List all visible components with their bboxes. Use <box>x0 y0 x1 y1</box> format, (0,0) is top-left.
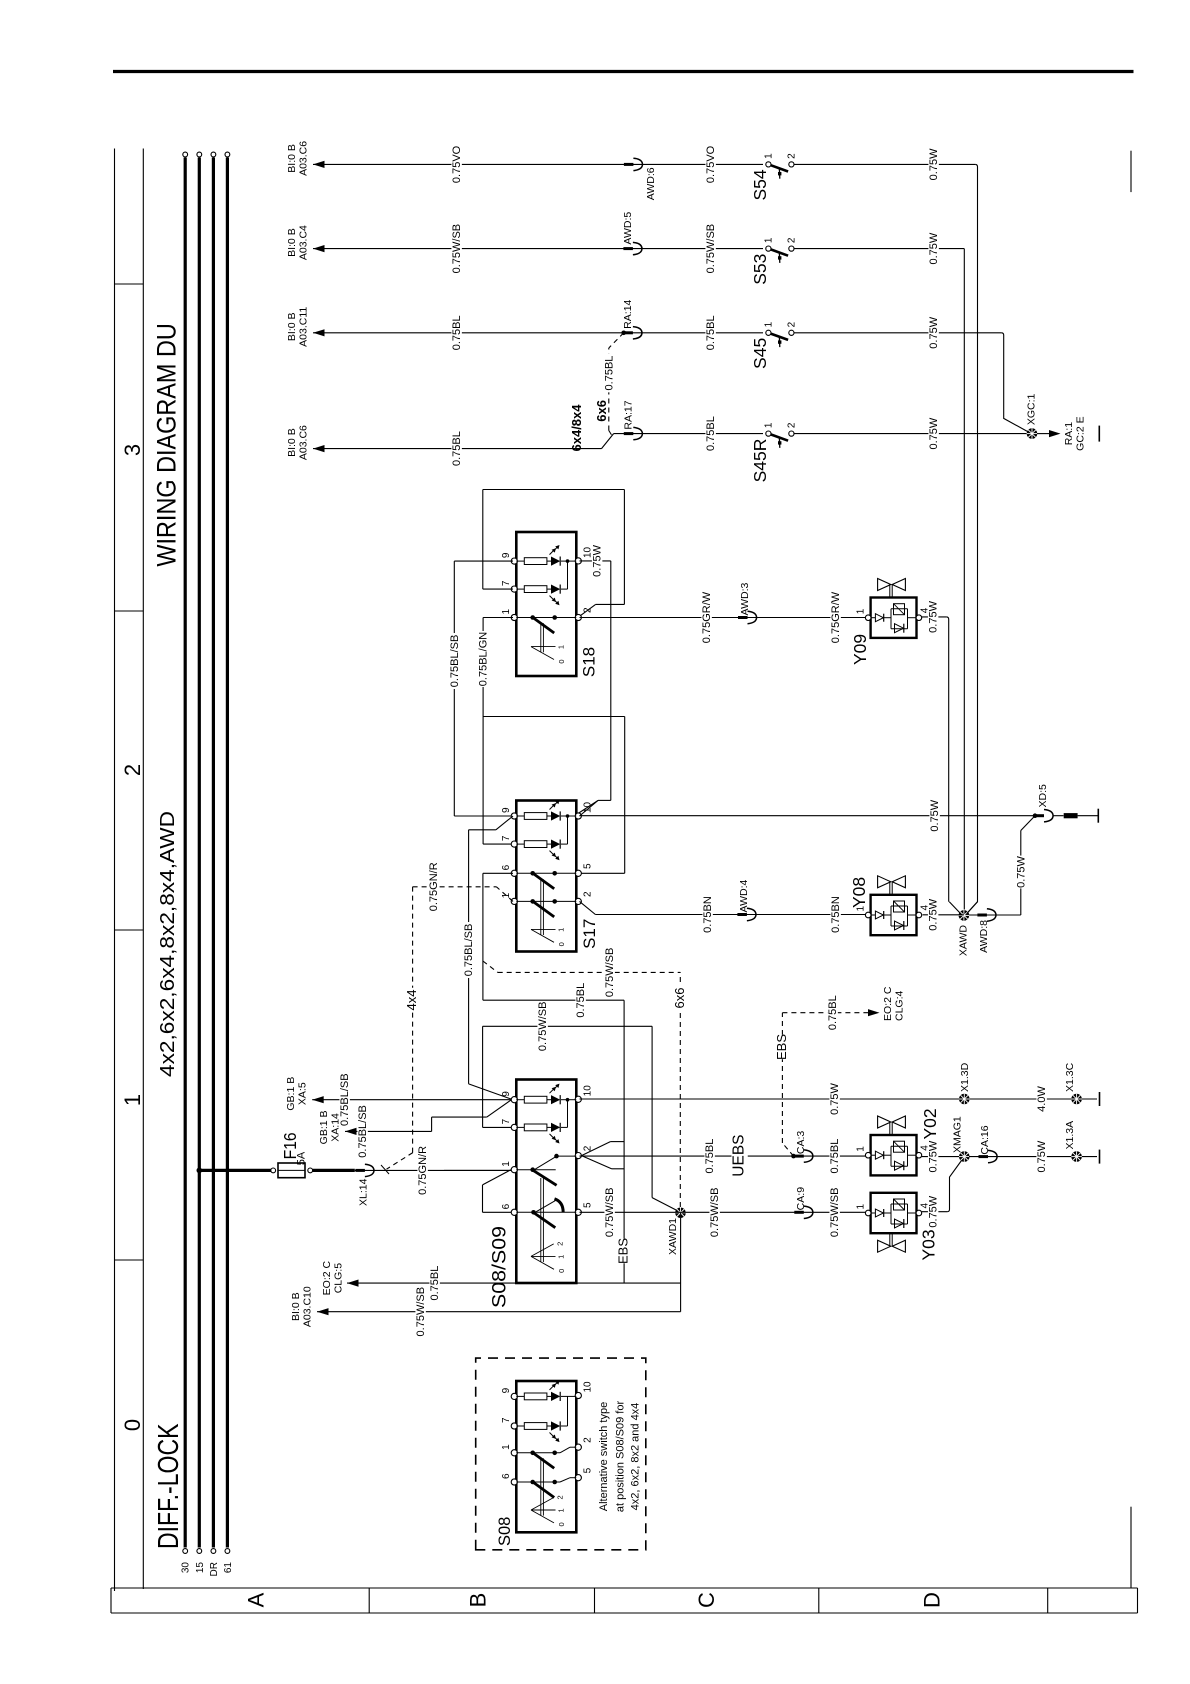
svg-text:30: 30 <box>181 1562 192 1574</box>
svg-text:1: 1 <box>557 928 566 932</box>
svg-text:1: 1 <box>557 1508 566 1512</box>
S17 pin 2 <box>575 898 581 904</box>
svg-text:1: 1 <box>764 153 775 159</box>
svg-text:3: 3 <box>120 444 145 456</box>
alt S08 switch box <box>516 1381 576 1532</box>
svg-text:2: 2 <box>583 1437 594 1443</box>
X1.3C termination <box>1099 1092 1101 1106</box>
svg-text:10: 10 <box>583 1085 594 1097</box>
svg-text:CA:3: CA:3 <box>795 1131 807 1155</box>
svg-text:6: 6 <box>501 1473 512 1479</box>
alt S08 lamp (pin 9) <box>516 1395 524 1397</box>
pin9 wire up to GB:1 B / XA:5 arrow <box>312 1099 511 1101</box>
svg-text:0.75W: 0.75W <box>829 1082 841 1114</box>
S08/S09 lamp (pin 7) <box>516 1126 524 1128</box>
solenoid valve Y02 box <box>871 1135 917 1175</box>
splice X1.3C <box>1071 1094 1082 1105</box>
4x4 dashed run to F16 output <box>412 887 414 1153</box>
S17 pin1 dashed 4x4 feed <box>496 887 513 902</box>
svg-text:0.75W: 0.75W <box>928 1195 940 1227</box>
svg-text:A03.C6: A03.C6 <box>298 141 310 176</box>
alt S08 switch contact 1-2 <box>516 1452 560 1454</box>
svg-text:0.75BL/SB: 0.75BL/SB <box>357 1105 369 1158</box>
svg-text:BI:0 B: BI:0 B <box>290 1292 302 1321</box>
Y02 pin 4 <box>916 1152 922 1158</box>
svg-text:0.75BL: 0.75BL <box>575 983 587 1018</box>
Y09 internals <box>871 617 875 619</box>
jumper pin1 to pin6 <box>483 1170 512 1185</box>
svg-text:0.75BL: 0.75BL <box>603 356 615 391</box>
svg-text:0.75W/SB: 0.75W/SB <box>604 948 616 998</box>
F16 wire into pin 1 <box>444 1169 511 1171</box>
S18 pin10 wire (0.75W) to S17 pin10 <box>580 560 611 562</box>
svg-text:0: 0 <box>557 942 566 946</box>
S17 pin 9 <box>511 813 517 819</box>
svg-text:0: 0 <box>557 1522 566 1526</box>
S08/S09 pin 5 <box>575 1209 581 1215</box>
dashed box: alternative switch S08 <box>476 1358 646 1550</box>
svg-text:XD:5: XD:5 <box>1037 784 1049 808</box>
svg-text:0.75GR/W: 0.75GR/W <box>830 591 842 643</box>
svg-text:DR: DR <box>209 1562 220 1576</box>
Y08 pin 1 <box>865 912 871 918</box>
svg-text:A03.C10: A03.C10 <box>302 1286 314 1327</box>
svg-text:XL:14: XL:14 <box>358 1178 370 1206</box>
svg-text:7: 7 <box>501 1118 512 1124</box>
Y09 pin 4 <box>916 615 922 621</box>
svg-text:XA:5: XA:5 <box>297 1082 309 1105</box>
svg-text:1: 1 <box>557 1255 566 1259</box>
alt S08 pin 1 <box>511 1450 517 1456</box>
S17 pin9 riser from S18 net <box>454 815 511 817</box>
svg-text:RA:1: RA:1 <box>1063 422 1075 446</box>
svg-text:15: 15 <box>195 1562 206 1574</box>
Y03 pilot bowtie <box>889 1233 891 1246</box>
svg-text:1: 1 <box>856 608 867 614</box>
connector XGC:1 <box>1027 428 1038 439</box>
S18 pin2 wire (0.75GR/W) down to Y09 <box>580 617 867 619</box>
alt S08 pin 7 <box>511 1423 517 1429</box>
svg-text:AWD:6: AWD:6 <box>645 167 657 200</box>
alt S08 pin 2 <box>575 1444 581 1450</box>
svg-text:XMAG1: XMAG1 <box>952 1116 964 1153</box>
S08/S09 pin 9 <box>511 1097 517 1103</box>
EBS net: S17 pin6 zigzag into XAWD1 <box>623 1000 625 1283</box>
wire B lower segment to XAWD <box>794 248 964 250</box>
S08/S09 pin 2 <box>575 1153 581 1159</box>
pin7 riser to EBS/XAWD1 net <box>483 1126 511 1128</box>
S17 pin 5 <box>575 870 581 876</box>
svg-text:0.75BL: 0.75BL <box>705 315 717 350</box>
alt S08 pin 10 <box>575 1392 581 1398</box>
connector CA:16 <box>979 1155 989 1158</box>
svg-text:XAWD: XAWD <box>958 925 970 957</box>
svg-text:1: 1 <box>764 422 775 428</box>
power rail 61 <box>226 158 229 1548</box>
S18 pin9 wire to S17 pin9 (0.75BL/SB) <box>454 560 513 562</box>
S17 pin 10 <box>575 813 581 819</box>
svg-text:0.75W: 0.75W <box>928 417 940 449</box>
S18 pin 10 <box>575 558 581 564</box>
S08/S09 pin 10 <box>575 1096 581 1102</box>
alt S08 lamp (pin 7) <box>516 1425 524 1427</box>
wire A horizontal run to XAWD <box>966 164 977 914</box>
S17 lamp (pin 9) <box>516 815 524 817</box>
Y09 pin 1 <box>865 615 871 621</box>
svg-text:RA:14: RA:14 <box>622 299 634 328</box>
svg-text:0.75BL: 0.75BL <box>705 416 717 451</box>
svg-text:XA:14: XA:14 <box>330 1113 342 1142</box>
svg-text:9: 9 <box>501 552 512 558</box>
svg-text:0.75BL: 0.75BL <box>429 1266 441 1301</box>
svg-text:0.75W/SB: 0.75W/SB <box>451 224 463 274</box>
svg-text:0.75GN/R: 0.75GN/R <box>417 1146 429 1195</box>
S08/S09 mechanism <box>540 1178 542 1262</box>
S18 lamp (pin 7) <box>516 588 524 590</box>
alt S08 mechanism <box>540 1458 542 1515</box>
thick fuse output <box>313 1169 355 1172</box>
6x6 dashed into XAWD1 <box>483 961 498 972</box>
svg-text:B: B <box>465 1593 490 1608</box>
connector AWD:6 on wire A <box>624 163 634 166</box>
wire C run to XGC:1 <box>1001 333 1027 432</box>
svg-text:0.75BN: 0.75BN <box>830 896 842 933</box>
frame bottom-edge stubs <box>1130 151 1132 192</box>
S18 pin7-pin2 lamp feed loop <box>483 588 513 590</box>
svg-text:0.75W: 0.75W <box>929 799 941 831</box>
svg-text:BI:0 B: BI:0 B <box>286 428 298 457</box>
S17 pin 1 <box>511 898 517 904</box>
svg-text:GB:1 B: GB:1 B <box>318 1110 330 1144</box>
svg-text:4x4: 4x4 <box>404 990 419 1011</box>
svg-text:2: 2 <box>787 422 798 428</box>
svg-text:0.75BL/SB: 0.75BL/SB <box>463 924 475 977</box>
svg-text:A: A <box>244 1592 269 1607</box>
switch S45R blade <box>771 434 788 440</box>
svg-text:0.75W/SB: 0.75W/SB <box>705 224 717 274</box>
svg-text:0.75W: 0.75W <box>928 232 940 264</box>
wire to S08/S09 pin1 (0.75GN/R) <box>355 1169 511 1171</box>
alt S08 pin 9 <box>511 1393 517 1399</box>
power rail 15 <box>198 158 201 1548</box>
splice X1.3D <box>959 1094 970 1105</box>
svg-text:2: 2 <box>787 237 798 243</box>
svg-text:0.75W: 0.75W <box>928 148 940 180</box>
svg-text:4.0W: 4.0W <box>1036 1086 1048 1112</box>
S18 pin 7 <box>511 586 517 592</box>
XD:5 sleeve bar <box>1064 813 1078 818</box>
svg-text:UEBS: UEBS <box>731 1134 748 1176</box>
arrow to RA:1 / GC:2 E <box>1037 433 1049 435</box>
splice XAWD <box>959 910 970 921</box>
svg-text:1: 1 <box>120 1094 145 1106</box>
svg-text:XGC:1: XGC:1 <box>1026 393 1038 425</box>
Y09 pin4 wire to XAWD (0.75W) <box>922 616 947 618</box>
svg-text:0.75W/SB: 0.75W/SB <box>537 1002 549 1052</box>
svg-text:7: 7 <box>501 1417 512 1423</box>
pin5 wire (0.75W/SB) through XAWD1 to Y03 <box>580 1211 867 1213</box>
switch S53 pins <box>766 246 771 251</box>
connector AWD:8 <box>977 914 987 917</box>
svg-text:DIFF.-LOCK: DIFF.-LOCK <box>153 1423 185 1549</box>
svg-text:0.75W: 0.75W <box>1015 855 1027 887</box>
wire B (0.75W/SB) <box>313 248 763 250</box>
wire A lower segment to corner <box>794 163 975 165</box>
XD:5 termination bar <box>1097 809 1099 823</box>
junction on rail 15 <box>197 1168 203 1174</box>
Y03 pin 1 <box>865 1210 871 1216</box>
svg-text:S08/S09: S08/S09 <box>490 1226 511 1308</box>
Y09 pilot bowtie <box>889 585 891 598</box>
connector RA:14 on wire C <box>623 331 633 334</box>
variant split tick on F16 wire <box>381 1165 389 1174</box>
svg-text:CLG:5: CLG:5 <box>333 1263 345 1294</box>
svg-text:0.75VO: 0.75VO <box>705 145 717 183</box>
svg-text:CLG:4: CLG:4 <box>894 990 906 1021</box>
S18 switch contact 1-2 <box>516 617 563 619</box>
wire D jog <box>602 434 614 449</box>
svg-text:1: 1 <box>501 1444 512 1450</box>
svg-text:6x6: 6x6 <box>594 400 609 422</box>
alt S08 pin 5 <box>575 1475 581 1481</box>
svg-text:RA:17: RA:17 <box>623 400 635 429</box>
svg-text:5: 5 <box>583 1467 594 1473</box>
connector AWD:5 on wire B <box>623 247 633 250</box>
svg-text:S45R: S45R <box>750 439 770 483</box>
EBS dashed branch point <box>791 1154 796 1159</box>
svg-text:EBS: EBS <box>616 1238 631 1264</box>
lower horizontal into XAWD1 <box>680 1213 682 1312</box>
svg-text:5: 5 <box>583 1202 594 1208</box>
svg-text:7: 7 <box>501 835 512 841</box>
svg-text:A03.C6: A03.C6 <box>298 425 310 460</box>
svg-text:0.75VO: 0.75VO <box>451 145 463 183</box>
switch S45 blade <box>771 334 788 340</box>
wire C (0.75BL) <box>313 332 763 334</box>
svg-text:Y09: Y09 <box>850 634 870 665</box>
Y08 internals <box>871 914 875 916</box>
svg-text:0.75BL: 0.75BL <box>451 315 463 350</box>
Y03 internals <box>871 1212 875 1214</box>
S08/S09 lamp (pin 9) <box>516 1099 524 1101</box>
svg-text:AWD:3: AWD:3 <box>739 582 751 615</box>
svg-text:2: 2 <box>787 153 798 159</box>
svg-text:5A: 5A <box>296 1151 308 1165</box>
svg-text:1: 1 <box>764 237 775 243</box>
splice X1.3A <box>1071 1151 1082 1162</box>
S18 mechanism <box>540 623 542 652</box>
svg-text:0.75BL/SB: 0.75BL/SB <box>449 635 461 688</box>
Y03 pin4 to XMAG1 (0.75W) <box>922 1211 948 1213</box>
svg-text:2: 2 <box>787 321 798 327</box>
svg-text:A03.C11: A03.C11 <box>298 307 310 347</box>
svg-text:0.75W: 0.75W <box>928 316 940 348</box>
alt S08 switch contact 6-5 <box>516 1481 560 1483</box>
alt S08 pin 6 <box>511 1479 517 1485</box>
svg-text:9: 9 <box>501 807 512 813</box>
svg-text:S45: S45 <box>750 338 770 369</box>
branch XD:5 to AWD:8 / XAWD <box>1021 816 1035 831</box>
svg-text:Alternative switch type: Alternative switch type <box>598 1402 610 1511</box>
svg-text:2: 2 <box>556 1242 565 1246</box>
S17 switch contact 6-5 <box>516 872 576 874</box>
connector AWD:4 <box>737 913 747 916</box>
connector CA:9 <box>794 1211 804 1214</box>
switch S17 box <box>516 801 576 952</box>
svg-text:0.75W/SB: 0.75W/SB <box>604 1188 616 1238</box>
svg-text:X1.3C: X1.3C <box>1064 1062 1076 1092</box>
junction to 6x6 branch <box>621 331 626 336</box>
svg-text:0: 0 <box>557 1269 566 1273</box>
Y08 pin4 wire into XAWD (0.75W) <box>923 914 964 916</box>
svg-text:EO:2 C: EO:2 C <box>882 986 894 1021</box>
wire C lower segment <box>794 332 1001 334</box>
S18 pin 1 <box>511 614 517 620</box>
solenoid valve Y08 box <box>871 895 917 935</box>
svg-text:0.75W/SB: 0.75W/SB <box>415 1287 427 1337</box>
svg-text:0.75W: 0.75W <box>928 1140 940 1172</box>
svg-text:0.75W: 0.75W <box>592 544 604 576</box>
svg-text:Y02: Y02 <box>920 1108 940 1139</box>
Y02 pilot bowtie <box>889 1122 891 1135</box>
S08/S09 pin 6 <box>511 1209 517 1215</box>
switch S45 pins <box>766 330 771 335</box>
S17 mechanism <box>540 879 542 935</box>
svg-text:Y03: Y03 <box>919 1229 939 1260</box>
connector XD:5 <box>1035 814 1045 817</box>
svg-text:1: 1 <box>501 892 512 898</box>
svg-text:2: 2 <box>556 1495 565 1499</box>
svg-text:AWD:5: AWD:5 <box>622 212 634 245</box>
svg-text:0.75BL: 0.75BL <box>829 1139 841 1174</box>
switch S08/S09 box <box>516 1080 576 1284</box>
svg-text:0: 0 <box>557 659 566 663</box>
switch S53 blade <box>771 249 788 255</box>
thick feed from rail 15 <box>199 1169 271 1172</box>
S17 pin2 wire (0.75BN) down to Y08 <box>580 901 596 914</box>
svg-text:0.75BN: 0.75BN <box>702 896 714 933</box>
svg-text:10: 10 <box>583 801 594 813</box>
svg-text:0.75BL: 0.75BL <box>451 431 463 466</box>
S18 lamp (pin 9) <box>516 560 524 562</box>
connector RA:17 on wire D <box>624 432 634 435</box>
connector XL:14 <box>355 1169 365 1172</box>
solenoid valve Y09 box <box>871 598 917 638</box>
svg-text:10: 10 <box>583 1381 594 1393</box>
S08/S09 pin 1 <box>511 1167 517 1173</box>
junction at XD:5 <box>1033 813 1038 818</box>
wire A (0.75VO) <box>313 163 763 165</box>
switch S54 blade <box>771 165 788 171</box>
wire D lower segment through XGC:1 <box>794 433 1027 435</box>
Y02 pin 1 <box>865 1152 871 1158</box>
svg-text:1: 1 <box>856 1146 867 1152</box>
svg-text:S18: S18 <box>580 647 599 677</box>
svg-text:6x4/8x4: 6x4/8x4 <box>569 404 584 452</box>
svg-text:9: 9 <box>501 1387 512 1393</box>
svg-text:0.75GR/W: 0.75GR/W <box>701 591 713 643</box>
svg-text:GC:2 E: GC:2 E <box>1075 416 1087 450</box>
svg-text:S54: S54 <box>750 169 770 200</box>
svg-text:0: 0 <box>120 1419 145 1431</box>
svg-text:6: 6 <box>501 1203 512 1209</box>
svg-text:BI:0 B: BI:0 B <box>286 312 298 341</box>
svg-text:2: 2 <box>120 764 145 776</box>
svg-text:4x2,6x2,6x4,8x2,8x4,AWD: 4x2,6x2,6x4,8x2,8x4,AWD <box>156 811 179 1077</box>
svg-text:0.75W: 0.75W <box>1036 1140 1048 1172</box>
svg-text:7: 7 <box>501 580 512 586</box>
svg-text:EBS: EBS <box>774 1034 789 1060</box>
pin2 UEBS wire (0.75BL) to Y02 and X1.3A <box>580 1155 867 1157</box>
svg-text:S08: S08 <box>496 1517 514 1546</box>
svg-text:BI:0 B: BI:0 B <box>286 228 298 257</box>
splice XMAG1 <box>959 1151 970 1162</box>
svg-text:BI:0 B: BI:0 B <box>286 144 298 173</box>
svg-text:1: 1 <box>501 1161 512 1167</box>
page header rule <box>113 70 1134 73</box>
branch to S17 pin5 <box>483 716 625 718</box>
svg-text:1: 1 <box>764 321 775 327</box>
S08/S09 switch contact 1-2 <box>516 1169 555 1171</box>
svg-text:4: 4 <box>919 905 930 911</box>
drawing frame: column-number strip <box>114 149 116 1592</box>
Y08 pilot bowtie <box>889 882 891 895</box>
Y08 pin 4 <box>916 912 922 918</box>
svg-text:AWD:8: AWD:8 <box>978 920 990 953</box>
svg-text:Y08: Y08 <box>849 877 869 908</box>
wire to CA:16 and X1.3A <box>969 1156 1097 1158</box>
svg-text:CA:16: CA:16 <box>979 1125 991 1154</box>
S17 pin 6 <box>511 870 517 876</box>
power rail DR <box>212 158 215 1548</box>
S18 pin 2 <box>575 614 581 620</box>
S17 pin 7 <box>511 841 517 847</box>
S17 switch contact 1-2 <box>516 900 576 902</box>
Y03 pin 4 <box>916 1210 922 1216</box>
termination bar <box>1098 426 1100 442</box>
switch S45R pins <box>766 431 771 436</box>
solenoid valve Y03 box <box>871 1193 917 1233</box>
svg-text:1: 1 <box>856 1204 867 1210</box>
svg-text:CA:9: CA:9 <box>795 1187 807 1211</box>
svg-text:0.75GN/R: 0.75GN/R <box>428 862 440 911</box>
svg-text:1: 1 <box>501 609 512 615</box>
switch S18 box <box>516 532 576 676</box>
svg-text:0.75BL: 0.75BL <box>827 995 839 1030</box>
svg-text:X1.3A: X1.3A <box>1064 1121 1076 1150</box>
drawing frame: row-letter strip <box>111 1612 1138 1614</box>
svg-text:0.75BL/GN: 0.75BL/GN <box>478 632 490 686</box>
svg-text:4x2, 6x2, 8x2 and 4x4: 4x2, 6x2, 8x2 and 4x4 <box>630 1403 642 1511</box>
svg-text:at position S08/S09 for: at position S08/S09 for <box>615 1401 627 1513</box>
svg-text:WIRING DIAGRAM DU: WIRING DIAGRAM DU <box>152 323 182 566</box>
svg-text:X1.3D: X1.3D <box>959 1062 971 1092</box>
svg-text:5: 5 <box>583 863 594 869</box>
Y02 pin4 to XMAG1 (0.75W) <box>922 1156 964 1158</box>
svg-text:0.75BL: 0.75BL <box>704 1139 716 1174</box>
svg-text:6x6: 6x6 <box>672 988 687 1009</box>
connector CA:3 <box>794 1155 804 1158</box>
svg-text:AWD:4: AWD:4 <box>738 879 750 912</box>
S17 pin10 wire (0.75W) to XD:5 <box>580 800 599 816</box>
connector AWD:3 <box>738 616 748 619</box>
svg-text:2: 2 <box>583 891 594 897</box>
switch S54 pins <box>766 162 771 167</box>
svg-text:GB:1 B: GB:1 B <box>285 1077 297 1111</box>
svg-text:C: C <box>694 1592 719 1608</box>
svg-text:9: 9 <box>501 1091 512 1097</box>
svg-text:1: 1 <box>557 645 566 649</box>
